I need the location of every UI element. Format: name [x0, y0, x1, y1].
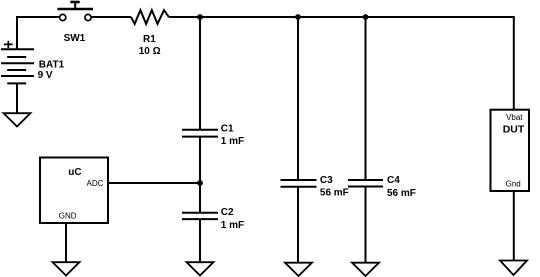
svg-text:C3: C3	[320, 175, 333, 186]
capacitor C2	[182, 213, 218, 219]
wire rail down to DUT Vbat	[513, 16, 515, 110]
svg-text:1 mF: 1 mF	[221, 136, 244, 147]
junction node ADC	[197, 180, 203, 186]
ground battery	[4, 113, 31, 126]
capacitor C4	[348, 180, 383, 187]
svg-text:DUT: DUT	[503, 123, 525, 135]
ground DUT	[500, 261, 527, 276]
svg-text:1 mF: 1 mF	[221, 220, 244, 231]
svg-text:R1: R1	[143, 34, 156, 45]
svg-text:9 V: 9 V	[38, 70, 53, 81]
svg-text:BAT1: BAT1	[39, 59, 65, 70]
svg-text:Gnd: Gnd	[506, 180, 521, 189]
svg-text:Vbat: Vbat	[506, 113, 523, 122]
wire battery negative down	[16, 83, 18, 113]
svg-text:10 Ω: 10 Ω	[139, 46, 161, 57]
ground C3	[285, 263, 312, 276]
wire C3 down	[297, 187, 299, 263]
microcontroller uC	[40, 158, 108, 224]
wire rail down to C4	[365, 17, 367, 180]
wire ADC to node	[108, 182, 200, 184]
wire C1 to C2	[199, 137, 201, 213]
wire C2 down	[199, 219, 201, 262]
junction node C3	[295, 14, 301, 20]
capacitor C3	[281, 180, 317, 187]
svg-text:ADC: ADC	[87, 179, 104, 188]
wire switch to resistor	[91, 16, 131, 18]
wire uC GND down	[65, 223, 67, 262]
resistor R1	[131, 10, 169, 24]
junction node C4	[363, 14, 369, 20]
svg-text:C4: C4	[387, 175, 400, 186]
wire C4 down	[365, 187, 367, 263]
wire DUT Gnd down	[513, 191, 515, 261]
svg-text:C2: C2	[221, 207, 234, 218]
switch SW1	[58, 2, 94, 21]
svg-text:SW1: SW1	[64, 33, 86, 44]
svg-text:uC: uC	[68, 167, 81, 178]
svg-text:56 mF: 56 mF	[387, 188, 416, 199]
ground C2	[187, 262, 214, 275]
svg-text:C1: C1	[221, 124, 234, 135]
ground C4	[352, 263, 379, 276]
wire rail down to C3	[297, 17, 299, 180]
svg-text:GND: GND	[59, 212, 77, 221]
capacitor C1	[182, 130, 218, 137]
wire top rail	[169, 16, 514, 18]
wire battery positive to switch	[17, 17, 59, 49]
ground uC	[53, 262, 80, 275]
junction node C1	[197, 14, 203, 20]
battery BAT1	[1, 41, 34, 84]
svg-text:56 mF: 56 mF	[320, 188, 349, 199]
device DUT	[491, 110, 530, 191]
wire rail down to C1	[199, 17, 201, 130]
